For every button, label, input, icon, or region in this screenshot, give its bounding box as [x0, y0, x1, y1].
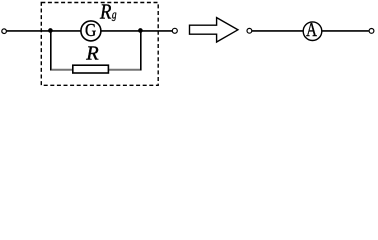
svg-text:R: R: [85, 43, 99, 65]
svg-text:g: g: [112, 8, 117, 22]
svg-text:A: A: [306, 19, 317, 41]
svg-text:R: R: [99, 1, 112, 23]
svg-text:G: G: [85, 20, 96, 40]
